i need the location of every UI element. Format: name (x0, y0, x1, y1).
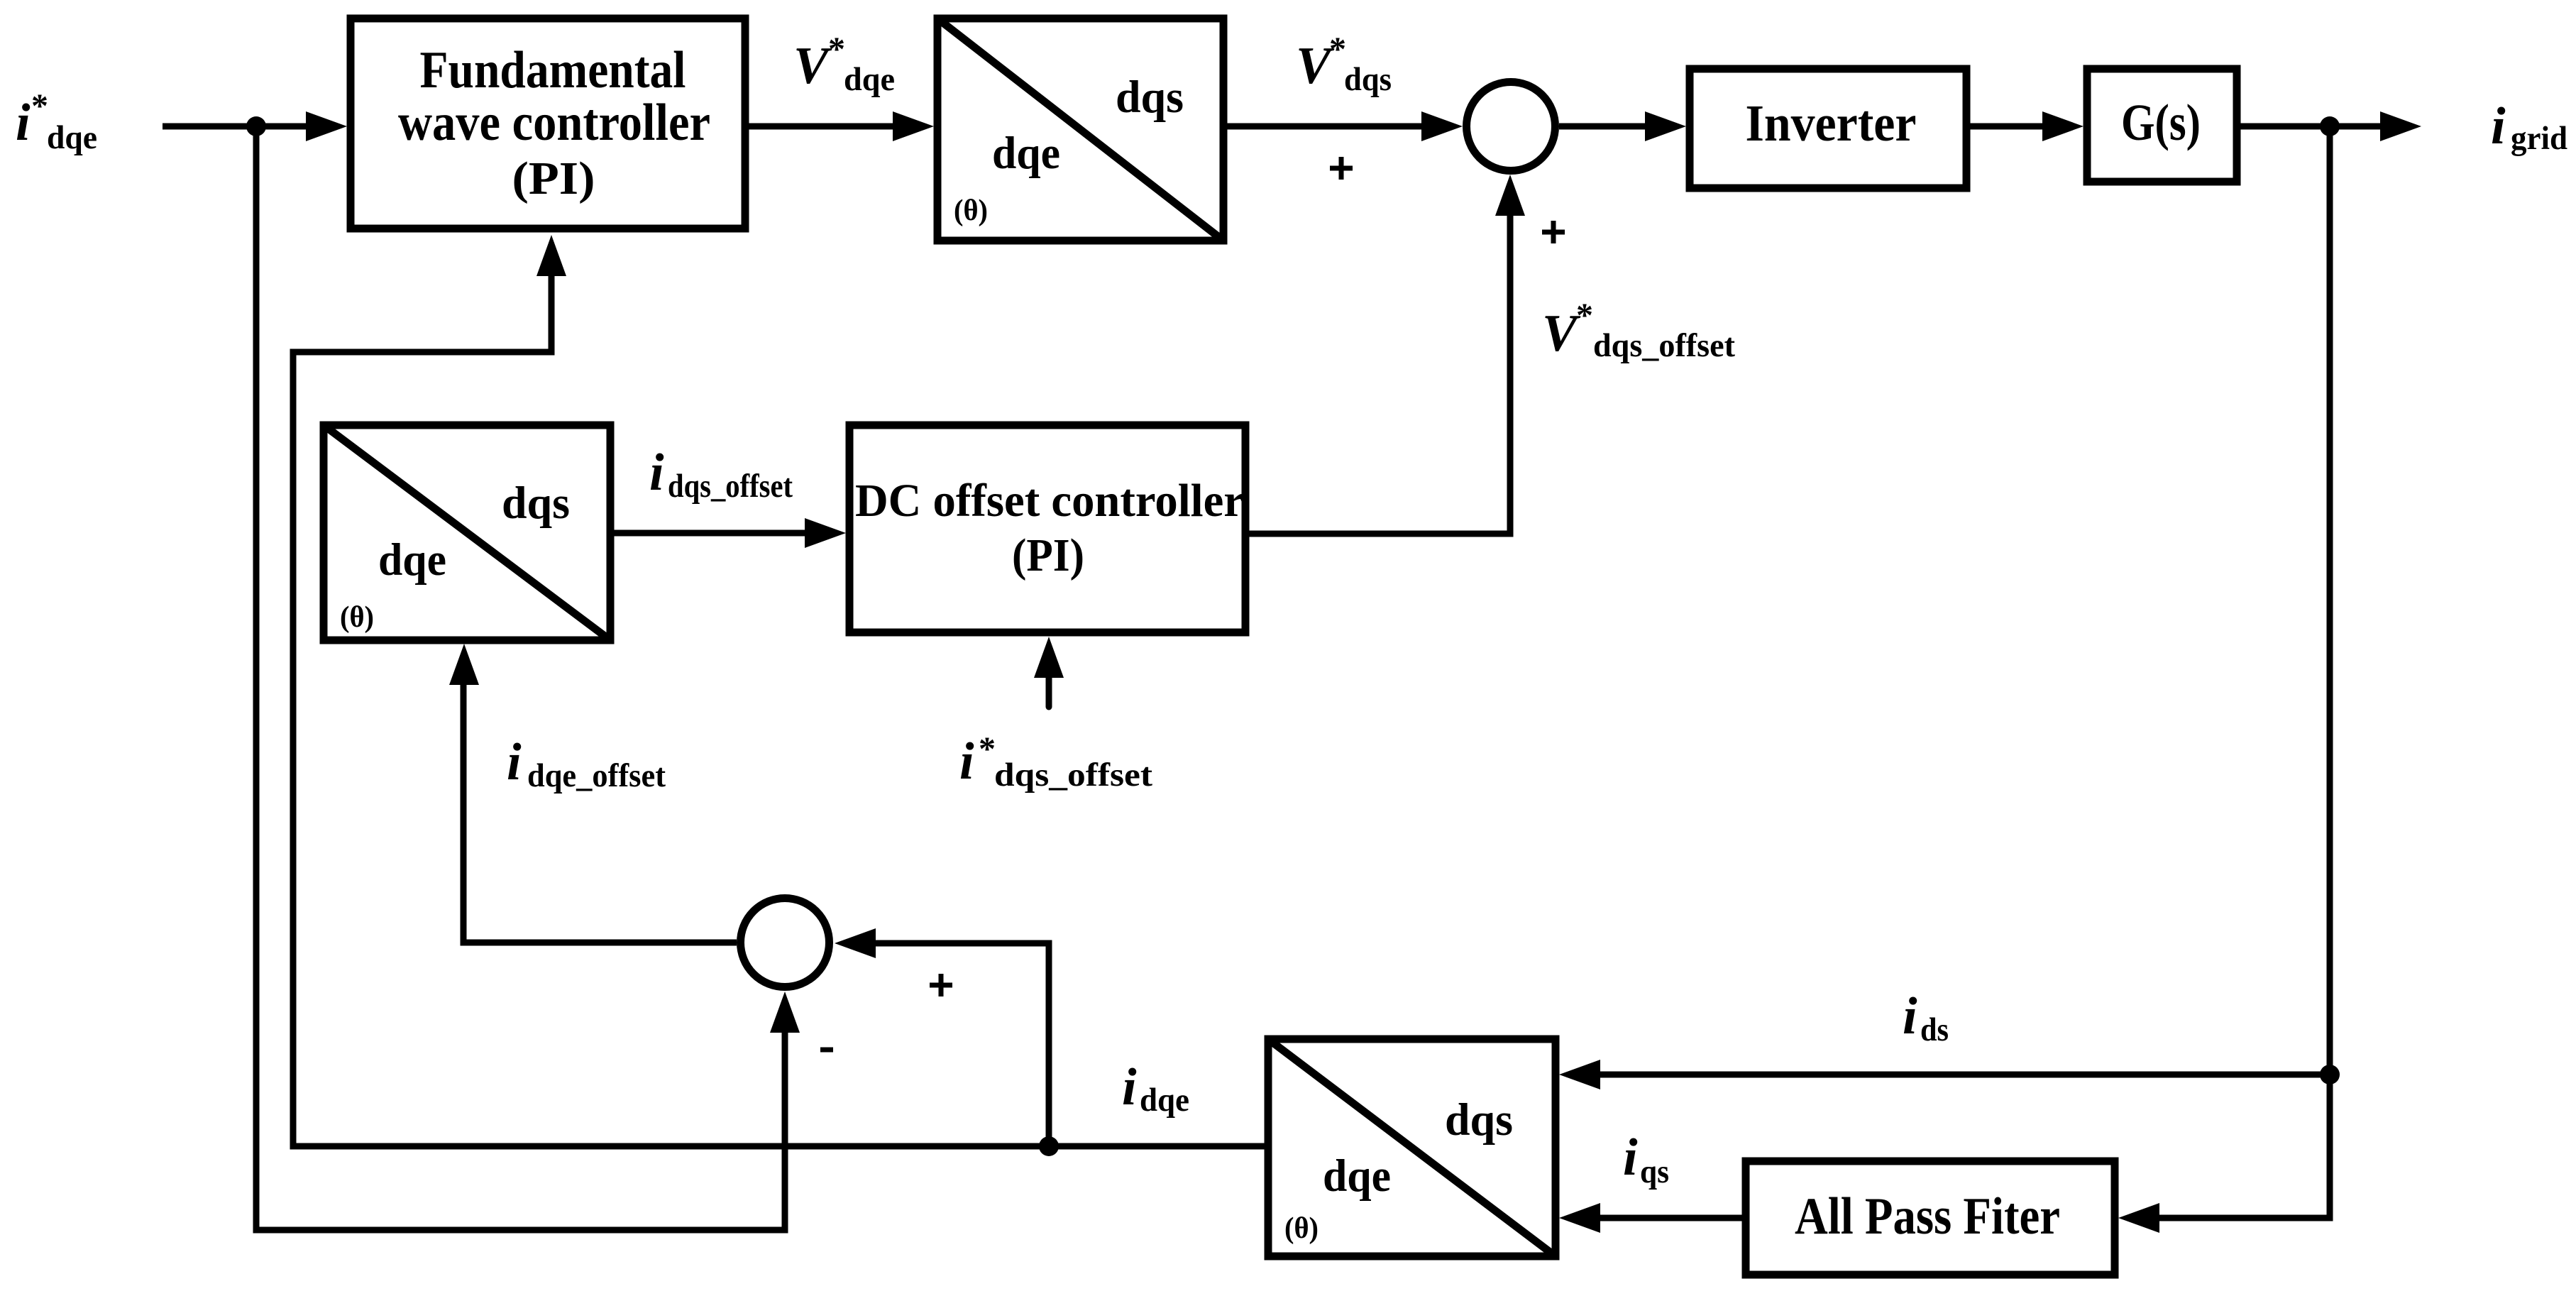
svg-text:i: i (649, 444, 664, 502)
svg-text:qs: qs (1640, 1153, 1669, 1190)
svg-text:(PI): (PI) (512, 153, 595, 204)
svg-text:wave controller: wave controller (398, 94, 710, 152)
svg-text:*: * (31, 87, 48, 125)
svg-text:dqe: dqe (844, 61, 895, 98)
svg-text:dqs_offset: dqs_offset (668, 468, 793, 505)
svg-text:dqe: dqe (992, 128, 1060, 179)
svg-text:Inverter: Inverter (1746, 94, 1917, 152)
svg-text:grid: grid (2511, 120, 2567, 157)
svg-text:i: i (1623, 1128, 1638, 1187)
svg-text:i: i (959, 732, 974, 791)
svg-text:dqs_offset: dqs_offset (1593, 327, 1735, 364)
svg-text:(PI): (PI) (1012, 529, 1084, 581)
svg-text:G(s): G(s) (2121, 94, 2201, 151)
svg-text:i: i (16, 94, 31, 152)
svg-text:dqs_offset: dqs_offset (994, 757, 1152, 793)
svg-text:i: i (1903, 987, 1917, 1045)
svg-text:dqe: dqe (1140, 1082, 1189, 1119)
svg-text:i: i (2491, 97, 2506, 155)
svg-text:(θ): (θ) (1284, 1212, 1319, 1245)
svg-text:ds: ds (1920, 1011, 1949, 1048)
svg-text:(θ): (θ) (340, 601, 374, 634)
svg-text:All Pass Fiter: All Pass Fiter (1795, 1187, 2060, 1246)
svg-text:dqe: dqe (47, 119, 97, 156)
svg-text:dqs: dqs (502, 478, 570, 529)
svg-text:V: V (793, 37, 832, 95)
svg-text:dqe_offset: dqe_offset (527, 757, 666, 794)
svg-text:dqs: dqs (1445, 1094, 1513, 1146)
svg-text:(θ): (θ) (954, 194, 988, 227)
svg-text:i: i (1122, 1058, 1137, 1116)
svg-text:DC offset controller: DC offset controller (855, 475, 1244, 527)
svg-text:i: i (507, 733, 522, 791)
svg-text:dqs: dqs (1116, 72, 1184, 123)
svg-text:dqs: dqs (1344, 61, 1392, 98)
svg-text:*: * (828, 31, 845, 68)
svg-text:*: * (1576, 297, 1593, 334)
svg-text:dqe: dqe (378, 534, 446, 586)
svg-text:*: * (979, 730, 996, 768)
svg-text:Fundamental: Fundamental (420, 41, 686, 99)
svg-text:dqe: dqe (1323, 1151, 1391, 1202)
svg-text:V: V (1542, 304, 1581, 363)
